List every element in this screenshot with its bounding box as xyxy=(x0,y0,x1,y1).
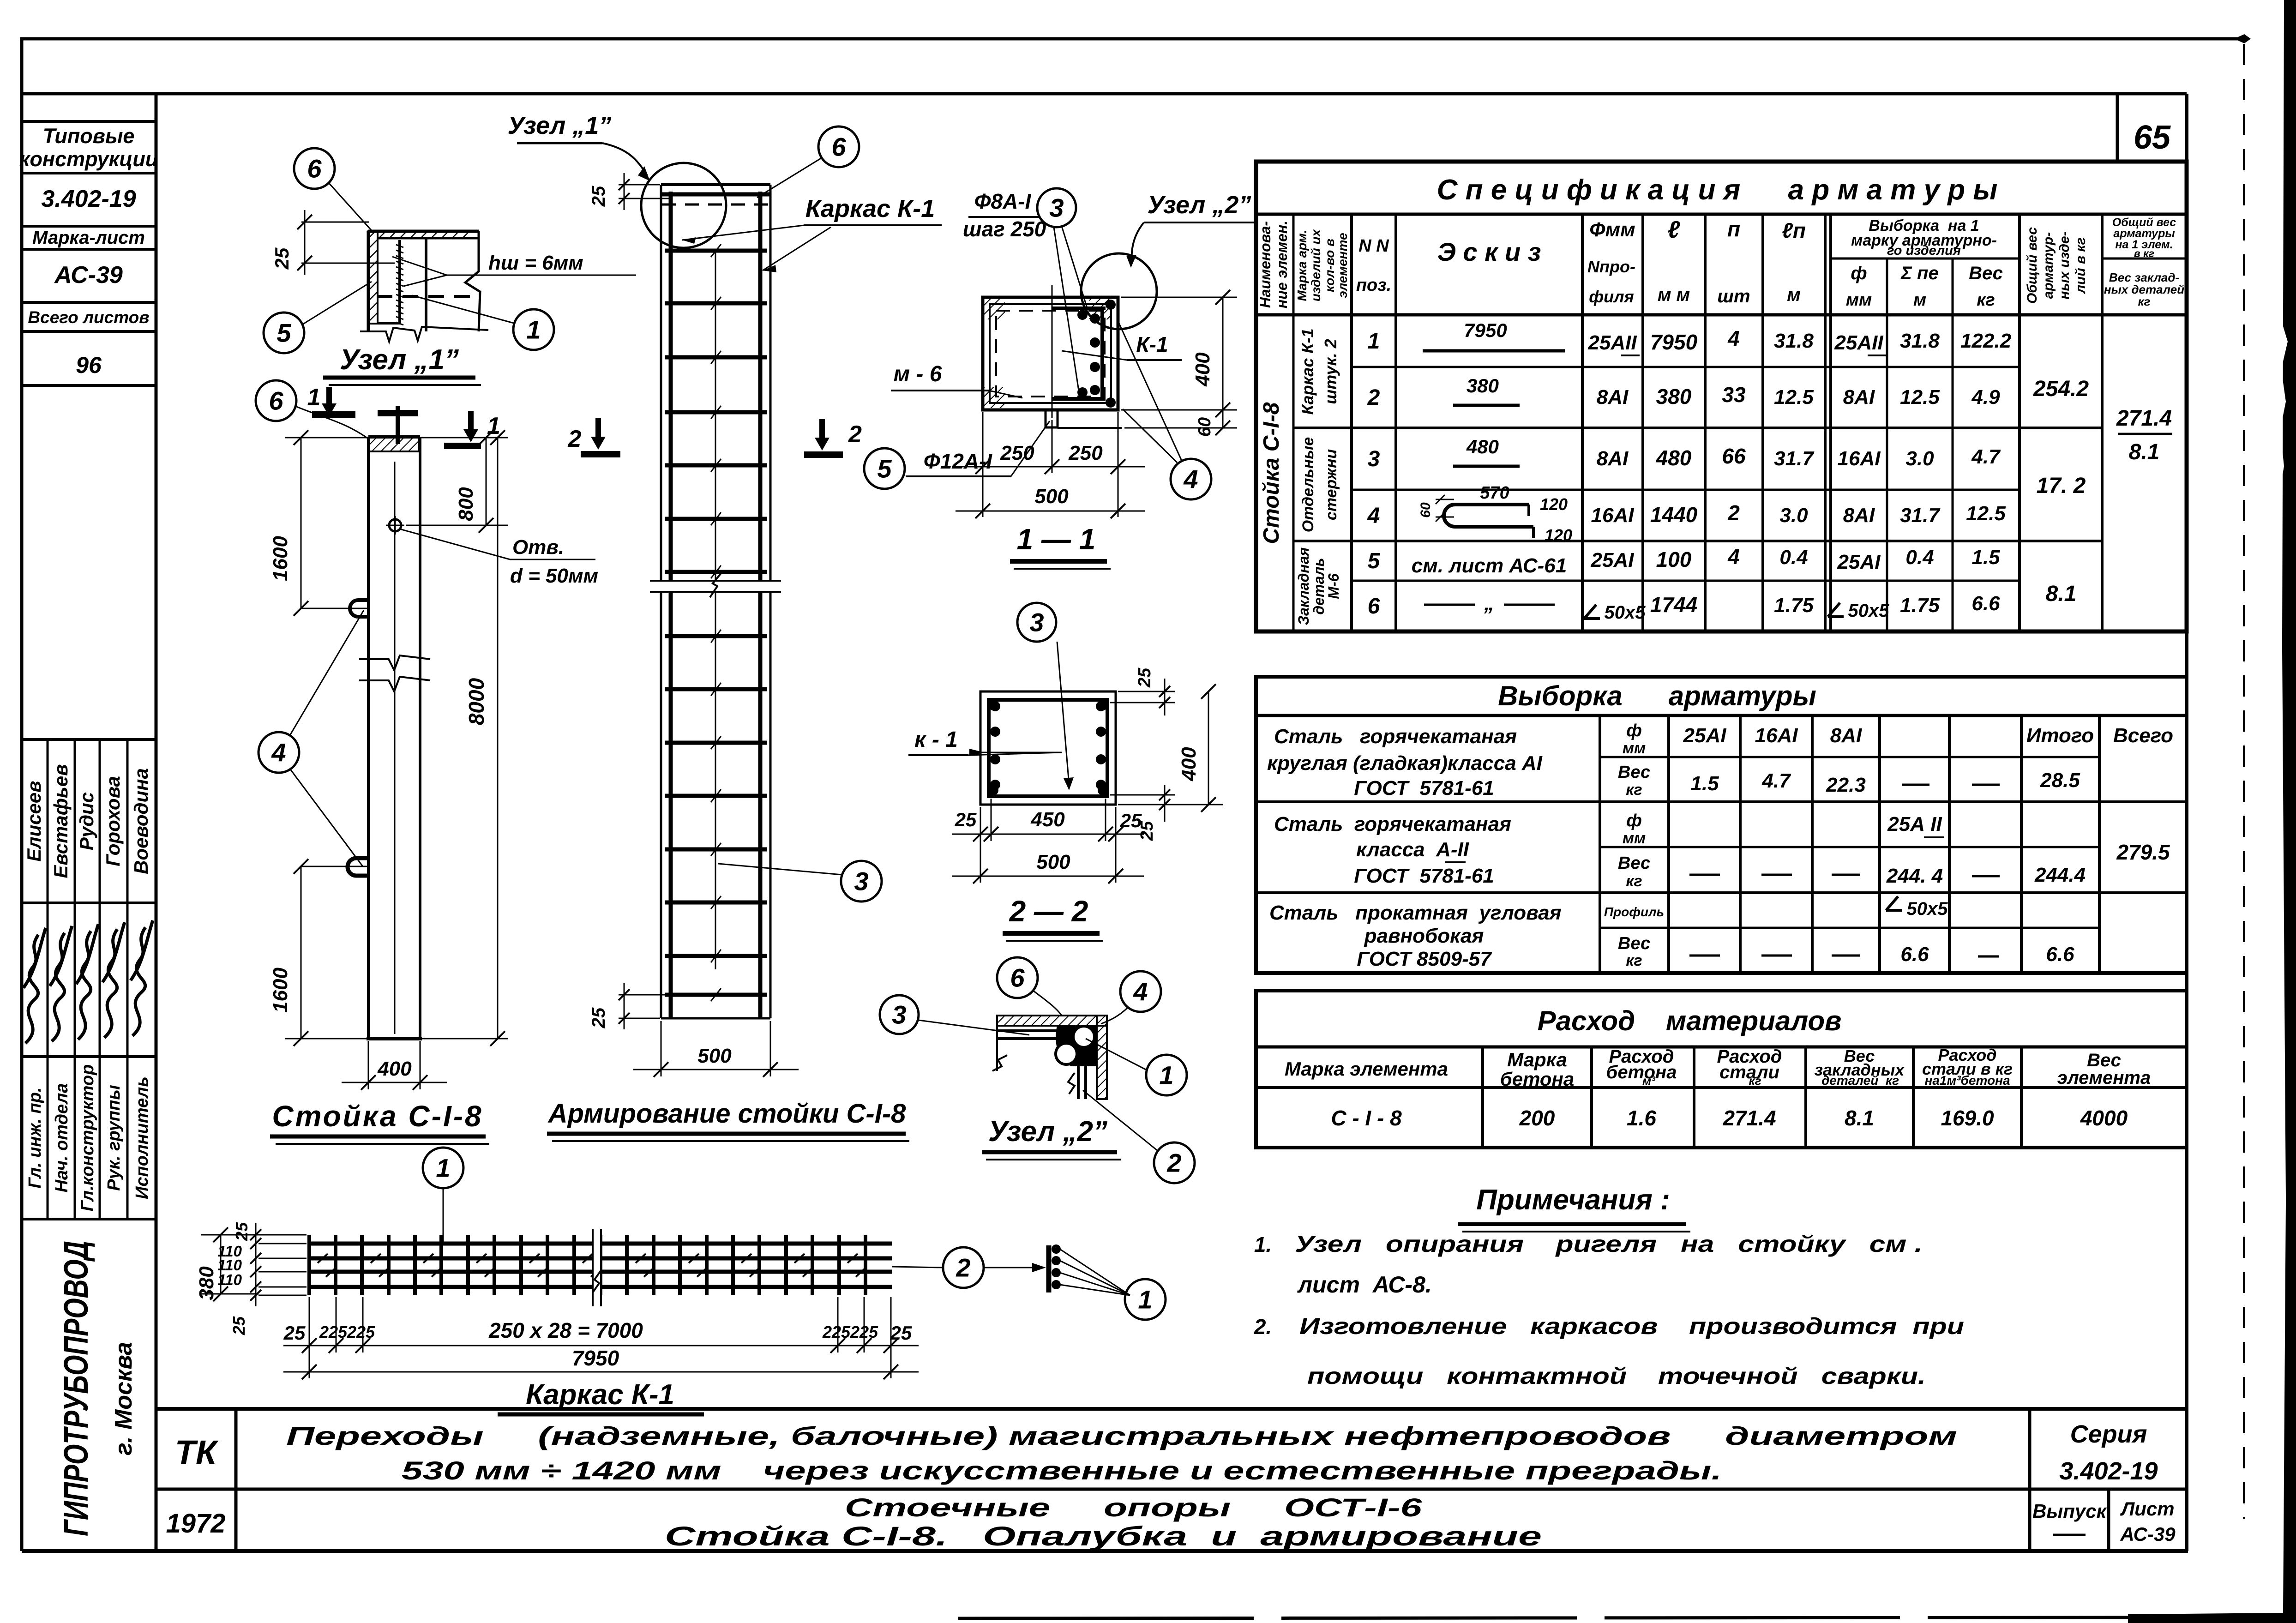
svg-text:8.1: 8.1 xyxy=(1845,1106,1874,1130)
svg-text:см. лист АС-61: см. лист АС-61 xyxy=(1412,554,1567,577)
bubble 4 with leaders to hooks xyxy=(258,732,299,773)
uzel1 weld seam (serrated) xyxy=(396,245,403,325)
svg-text:Узел „2”: Узел „2” xyxy=(1148,191,1251,219)
karkas K-1 cage longitudinal bars xyxy=(308,1242,892,1246)
bubble 5 + f12A-I label xyxy=(864,448,905,489)
svg-text:Горохова: Горохова xyxy=(102,776,124,866)
svg-text:ГОСТ 5781-61: ГОСТ 5781-61 xyxy=(1354,865,1494,887)
ladder longitudinal bars xyxy=(669,192,673,1018)
stojka lifting hook upper xyxy=(350,600,368,617)
spec header mid lines xyxy=(1831,258,2020,260)
signature table verticals xyxy=(47,739,49,1219)
stojka centre line xyxy=(394,462,396,1034)
svg-text:450: 450 xyxy=(1030,808,1065,831)
svg-text:Наименова-: Наименова- xyxy=(1257,221,1274,308)
svg-text:1: 1 xyxy=(436,1154,450,1183)
svg-text:бетона: бетона xyxy=(1606,1062,1677,1082)
svg-text:8000: 8000 xyxy=(464,678,488,725)
bubble 4 with leaders xyxy=(1171,459,1211,499)
svg-text:25: 25 xyxy=(283,1322,306,1344)
dims right of 2-2: 25 top xyxy=(1118,691,1175,692)
svg-text:Марка арм.: Марка арм. xyxy=(1295,229,1309,301)
svg-text:Стоечные опоры ОСТ-I-6: Стоечные опоры ОСТ-I-6 xyxy=(845,1493,1422,1522)
section mark cross at column centre xyxy=(396,406,400,444)
armirovanie ladder outer rect xyxy=(661,183,770,186)
svg-text:Узел „2”: Узел „2” xyxy=(988,1116,1107,1148)
svg-text:шаг 250: шаг 250 xyxy=(963,217,1046,241)
spec header bottom xyxy=(1256,313,2187,317)
ladder break mark xyxy=(658,581,774,592)
svg-text:Nпро-: Nпро- xyxy=(1587,257,1635,276)
svg-text:Сталь горячекатаная: Сталь горячекатаная xyxy=(1274,725,1517,748)
svg-text:Общий вес: Общий вес xyxy=(2025,227,2040,304)
svg-text:ГОСТ 8509-57: ГОСТ 8509-57 xyxy=(1357,948,1492,970)
svg-text:1: 1 xyxy=(526,315,541,344)
svg-text:кг: кг xyxy=(1977,290,1995,310)
vyborka verticals xyxy=(1599,715,1601,973)
dim 500 below 2-2 xyxy=(952,876,1144,877)
cage break mark xyxy=(593,1229,602,1306)
svg-text:120: 120 xyxy=(1545,526,1572,545)
svg-text:К-1: К-1 xyxy=(1136,332,1168,356)
svg-text:Стойка С-I-8: Стойка С-I-8 xyxy=(272,1100,483,1133)
stojka hole otv d=50 xyxy=(389,519,401,531)
svg-text:2: 2 xyxy=(1166,1148,1181,1178)
svg-text:ф: ф xyxy=(1626,721,1642,740)
svg-text:Узел „1”: Узел „1” xyxy=(340,344,459,376)
svg-text:Закладная: Закладная xyxy=(1295,547,1312,625)
svg-text:Выборка арматуры: Выборка арматуры xyxy=(1498,680,1816,711)
svg-text:1440: 1440 xyxy=(1650,503,1698,527)
uzel2 bubble 2 xyxy=(1154,1142,1195,1183)
svg-text:122.2: 122.2 xyxy=(1960,330,2012,352)
svg-text:4: 4 xyxy=(1367,504,1380,528)
svg-text:3: 3 xyxy=(1029,608,1044,637)
svg-text:25: 25 xyxy=(1120,810,1142,831)
svg-text:„: „ xyxy=(1484,592,1494,615)
svg-text:6: 6 xyxy=(1368,594,1380,619)
dims below 2-2: 25 450 25 xyxy=(980,807,981,883)
svg-text:400: 400 xyxy=(1178,747,1200,781)
svg-text:7950: 7950 xyxy=(572,1346,619,1370)
svg-text:Э с к и з: Э с к и з xyxy=(1437,237,1541,266)
svg-text:м м: м м xyxy=(1658,285,1690,305)
dim 8000 right xyxy=(497,438,499,1039)
svg-text:Стойка С-I-8. Опалубка и а: Стойка С-I-8. Опалубка и армирование xyxy=(665,1521,1542,1551)
svg-text:Всего листов: Всего листов xyxy=(28,308,149,327)
svg-text:Гл. инж. пр.: Гл. инж. пр. xyxy=(25,1088,45,1189)
spec row lines xyxy=(1352,366,2020,368)
svg-text:мм: мм xyxy=(1846,290,1872,310)
dim 1600 upper xyxy=(301,438,302,608)
stojka C-I-8 elevation outline xyxy=(368,435,420,438)
svg-text:изделий их: изделий их xyxy=(1309,228,1323,301)
svg-text:33: 33 xyxy=(1722,383,1746,407)
svg-text:271.4: 271.4 xyxy=(1722,1106,1776,1130)
uzel1 bubble 5 xyxy=(264,313,304,353)
svg-text:Переходы (надземные, балоч: Переходы (надземные, балочные) магистрал… xyxy=(286,1421,1957,1450)
dim 7950 xyxy=(283,1371,919,1373)
ladder dashed top hidden line xyxy=(662,204,769,206)
svg-text:в кг: в кг xyxy=(2134,247,2154,259)
section 1-1 K-1 cage right part xyxy=(1100,307,1104,401)
svg-text:225: 225 xyxy=(319,1322,348,1341)
svg-text:6.6: 6.6 xyxy=(1971,592,2000,615)
svg-text:Елисеев: Елисеев xyxy=(23,781,45,861)
svg-text:Изготовление каркасов про: Изготовление каркасов производится при xyxy=(1299,1313,1964,1339)
svg-text:1 — 1: 1 — 1 xyxy=(1017,523,1096,556)
svg-text:16АI: 16АI xyxy=(1591,504,1635,527)
dims 250 250 below 1-1 xyxy=(982,412,984,473)
svg-text:4: 4 xyxy=(1727,545,1740,569)
vyborka group lines xyxy=(1256,800,2187,803)
svg-text:бетона: бетона xyxy=(1500,1068,1575,1090)
svg-text:500: 500 xyxy=(697,1045,732,1067)
fold mark dashed line xyxy=(2243,44,2245,1519)
dim 400 below stojka xyxy=(368,1041,369,1089)
svg-text:25: 25 xyxy=(229,1316,248,1335)
svg-text:4.9: 4.9 xyxy=(1971,386,2000,409)
svg-text:Вес: Вес xyxy=(1969,263,2003,283)
svg-text:г. Москва: г. Москва xyxy=(110,1342,137,1455)
uzel2 bubble 1 xyxy=(1146,1055,1187,1095)
karkas K-1 stirrups xyxy=(307,1235,311,1295)
cage end view bar xyxy=(1046,1245,1052,1292)
svg-text:25АI: 25АI xyxy=(1591,549,1635,571)
svg-text:2: 2 xyxy=(848,421,862,448)
svg-text:Отдельные: Отдельные xyxy=(1299,437,1317,532)
svg-text:равнобокая: равнобокая xyxy=(1364,925,1484,947)
leaders from bubble3 into section xyxy=(1054,227,1080,397)
svg-text:530 мм ÷ 1420 мм через иску: 530 мм ÷ 1420 мм через искусственные и е… xyxy=(402,1456,1722,1485)
svg-text:АС-39: АС-39 xyxy=(2120,1523,2176,1545)
svg-text:16АI: 16АI xyxy=(1755,724,1798,747)
left dims 25/110/110/110/25 xyxy=(255,1223,257,1306)
svg-text:Каркас К-1: Каркас К-1 xyxy=(805,195,935,222)
uzel1 indicator circle on ladder corner xyxy=(641,163,726,248)
svg-text:мм: мм xyxy=(1623,830,1646,847)
svg-text:Вес: Вес xyxy=(1618,934,1650,953)
svg-text:480: 480 xyxy=(1466,436,1499,457)
svg-text:500: 500 xyxy=(1036,851,1070,873)
svg-text:8.1: 8.1 xyxy=(2129,440,2160,464)
svg-text:Марка элемента: Марка элемента xyxy=(1285,1058,1448,1080)
svg-text:400: 400 xyxy=(1191,352,1214,387)
svg-text:Всего: Всего xyxy=(2113,724,2173,747)
svg-text:25: 25 xyxy=(271,247,293,270)
svg-text:Каркас К-1: Каркас К-1 xyxy=(526,1379,674,1411)
svg-text:250 х 28 = 7000: 250 х 28 = 7000 xyxy=(488,1318,643,1342)
svg-text:12.5: 12.5 xyxy=(1966,502,2006,525)
svg-text:3.402-19: 3.402-19 xyxy=(2059,1457,2158,1485)
svg-text:254.2: 254.2 xyxy=(2033,377,2089,401)
svg-text:6: 6 xyxy=(831,132,846,162)
svg-text:2: 2 xyxy=(956,1253,970,1282)
dim 400 right of 2-2 xyxy=(1208,691,1209,805)
svg-text:2: 2 xyxy=(568,426,582,452)
section 1-1 rebar dots xyxy=(1090,313,1100,324)
dim 25 ladder bottom xyxy=(619,994,669,996)
stojka break marks xyxy=(359,655,430,691)
svg-text:6: 6 xyxy=(269,386,283,415)
svg-text:65: 65 xyxy=(2134,119,2171,156)
svg-text:лист АС-8.: лист АС-8. xyxy=(1297,1272,1432,1298)
right margin line xyxy=(2185,94,2188,1551)
scan edge artifacts right strip xyxy=(2128,0,2296,1623)
svg-text:1972: 1972 xyxy=(166,1509,225,1539)
section 2-2 mid line with K-1 arrow xyxy=(980,752,1062,753)
svg-text:250: 250 xyxy=(1068,442,1103,464)
svg-text:66: 66 xyxy=(1722,444,1746,468)
svg-text:элемента: элемента xyxy=(2057,1068,2151,1088)
svg-text:25АI: 25АI xyxy=(1837,551,1881,573)
spec verticals xyxy=(1292,214,1295,631)
svg-text:50х5: 50х5 xyxy=(1848,601,1890,621)
svg-text:31.7: 31.7 xyxy=(1774,447,1815,470)
uzel1 bubble 1 xyxy=(513,309,554,350)
svg-text:1: 1 xyxy=(1138,1285,1152,1314)
svg-text:1600: 1600 xyxy=(269,968,292,1013)
svg-text:244.4: 244.4 xyxy=(2034,864,2086,886)
svg-text:3.0: 3.0 xyxy=(1905,447,1934,470)
uzel 2 indicator circle xyxy=(1081,253,1157,329)
svg-text:100: 100 xyxy=(1656,547,1692,571)
top band divider line xyxy=(22,92,2187,96)
svg-text:1.75: 1.75 xyxy=(1900,594,1940,617)
uzel1 bottom break lines xyxy=(360,327,488,342)
section 1-1 outer square xyxy=(983,297,1118,410)
svg-text:3: 3 xyxy=(1049,193,1064,222)
svg-text:25АI: 25АI xyxy=(1683,724,1727,747)
svg-text:1: 1 xyxy=(307,384,321,411)
rashod verticals xyxy=(1481,1047,1484,1148)
svg-text:Узел „1”: Узел „1” xyxy=(508,112,612,139)
svg-text:филя: филя xyxy=(1589,287,1634,306)
svg-text:ℓ: ℓ xyxy=(1668,216,1681,243)
bubble 2 with leader to end view xyxy=(943,1247,984,1288)
svg-text:2: 2 xyxy=(1727,501,1740,525)
svg-text:570: 570 xyxy=(1480,483,1509,503)
svg-text:225: 225 xyxy=(822,1322,851,1341)
svg-text:м³: м³ xyxy=(1642,1074,1656,1088)
left dims of cage: 380 xyxy=(220,1235,222,1294)
svg-text:кг: кг xyxy=(1626,872,1642,890)
svg-text:круглая (гладкая)класса АI: круглая (гладкая)класса АI xyxy=(1267,752,1543,775)
svg-text:мм: мм xyxy=(1623,739,1646,757)
svg-text:Итого: Итого xyxy=(2026,724,2094,747)
svg-text:60: 60 xyxy=(1418,502,1433,518)
svg-text:Гл.конструктор: Гл.конструктор xyxy=(78,1064,97,1212)
svg-text:50х5: 50х5 xyxy=(1605,602,1646,623)
svg-text:кг: кг xyxy=(1749,1074,1761,1088)
svg-text:N N: N N xyxy=(1358,236,1389,256)
svg-text:к - 1: к - 1 xyxy=(914,727,958,752)
svg-text:hш = 6мм: hш = 6мм xyxy=(488,252,583,274)
uzel1 outer right edge with break xyxy=(465,231,480,331)
svg-text:25: 25 xyxy=(589,186,609,207)
svg-text:380: 380 xyxy=(1467,375,1499,397)
weld tick marks on cage xyxy=(318,1254,328,1263)
svg-text:Фмм: Фмм xyxy=(1589,218,1635,241)
dim 800 right xyxy=(421,437,508,439)
svg-text:Стойка С-I-8: Стойка С-I-8 xyxy=(1259,402,1284,544)
svg-text:Рудис: Рудис xyxy=(76,792,97,850)
svg-text:1744: 1744 xyxy=(1650,593,1697,617)
svg-text:25АII: 25АII xyxy=(1587,331,1637,354)
eskiz r6 xyxy=(1424,604,1475,606)
svg-text:25: 25 xyxy=(1135,667,1154,688)
svg-text:м - 6: м - 6 xyxy=(894,362,942,386)
ladder top chord xyxy=(662,192,769,197)
section 1-1 inner offset lines xyxy=(990,304,1111,403)
svg-text:4.7: 4.7 xyxy=(1761,769,1791,792)
svg-text:ных изде-: ных изде- xyxy=(2057,231,2072,299)
svg-text:ГОСТ 5781-61: ГОСТ 5781-61 xyxy=(1354,777,1494,799)
svg-text:96: 96 xyxy=(76,352,102,378)
uzel1 inner plate verticals xyxy=(398,240,401,323)
svg-text:12.5: 12.5 xyxy=(1900,386,1940,409)
svg-text:го изделия: го изделия xyxy=(1887,243,1961,258)
svg-text:8АI: 8АI xyxy=(1830,724,1862,747)
svg-text:400: 400 xyxy=(377,1058,412,1080)
svg-text:5: 5 xyxy=(877,454,892,483)
svg-text:Вес: Вес xyxy=(1618,854,1650,873)
svg-text:шт: шт xyxy=(1717,286,1750,307)
signatures (squiggles) xyxy=(24,928,46,1043)
svg-text:279.5: 279.5 xyxy=(2116,840,2170,864)
svg-text:Сталь прокатная угловая: Сталь прокатная угловая xyxy=(1269,902,1562,924)
specification table outer xyxy=(1256,162,2187,631)
svg-text:4: 4 xyxy=(1133,977,1148,1006)
svg-text:м: м xyxy=(1787,285,1801,305)
svg-text:28.5: 28.5 xyxy=(2040,769,2080,792)
svg-text:кол-во в: кол-во в xyxy=(1322,239,1337,292)
bubble 6 at stojka top xyxy=(256,380,296,421)
svg-text:Сталь горячекатаная: Сталь горячекатаная xyxy=(1274,813,1511,836)
svg-text:Отв.: Отв. xyxy=(512,536,564,559)
svg-text:деталей кг: деталей кг xyxy=(1821,1073,1899,1088)
svg-text:5: 5 xyxy=(1368,549,1381,573)
svg-text:поз.: поз. xyxy=(1356,276,1391,295)
svg-text:6.6: 6.6 xyxy=(1900,943,1929,966)
svg-text:500: 500 xyxy=(1034,485,1069,508)
section 1-1 dashed plate outline xyxy=(996,311,1105,397)
svg-text:элементе: элементе xyxy=(1335,233,1350,298)
svg-text:Узел опирания ригеля на: Узел опирания ригеля на стойку см . xyxy=(1295,1231,1923,1257)
svg-text:2 — 2: 2 — 2 xyxy=(1009,895,1088,928)
svg-text:стержни: стержни xyxy=(1322,449,1340,520)
svg-text:Вес: Вес xyxy=(1618,763,1650,782)
svg-text:31.8: 31.8 xyxy=(1900,330,1940,352)
svg-text:ние элемен.: ние элемен. xyxy=(1274,221,1290,308)
svg-text:d = 50мм: d = 50мм xyxy=(510,565,598,587)
ladder centre bar (thin) xyxy=(715,249,716,969)
svg-text:380: 380 xyxy=(195,1266,218,1300)
svg-text:0.4: 0.4 xyxy=(1779,546,1808,569)
uzel2 bubble 4 xyxy=(1120,971,1161,1012)
vyborka sub lines xyxy=(1600,756,2099,758)
svg-text:7950: 7950 xyxy=(1464,319,1507,341)
svg-text:3: 3 xyxy=(1368,447,1380,471)
svg-text:25: 25 xyxy=(890,1322,912,1344)
uzel2 top hatched strip xyxy=(997,1016,1107,1026)
svg-text:штук. 2: штук. 2 xyxy=(1321,339,1340,404)
svg-text:на1м³бетона: на1м³бетона xyxy=(1924,1073,2010,1088)
svg-text:АС-39: АС-39 xyxy=(54,262,123,289)
svg-text:250: 250 xyxy=(1000,442,1034,464)
uzel2 horizontal bars xyxy=(997,1029,1076,1032)
svg-text:Лист: Лист xyxy=(2120,1498,2174,1520)
uzel1 concrete outline left xyxy=(367,231,370,331)
uzel2 right hatched strip xyxy=(1097,1016,1107,1099)
otv d=50mm label with leader xyxy=(400,529,510,559)
left column divider xyxy=(155,94,158,1551)
svg-text:6: 6 xyxy=(307,154,322,183)
svg-text:110: 110 xyxy=(217,1271,242,1288)
svg-text:ф: ф xyxy=(1851,263,1867,283)
svg-text:1.75: 1.75 xyxy=(1774,594,1814,617)
svg-text:Профиль: Профиль xyxy=(1604,905,1664,919)
svg-text:169.0: 169.0 xyxy=(1941,1106,1994,1130)
bottom title block lines xyxy=(156,1407,2187,1411)
svg-text:1.5: 1.5 xyxy=(1690,772,1719,795)
svg-text:помощи контактной точечно: помощи контактной точечной сварки. xyxy=(1307,1363,1926,1389)
svg-text:С п е ц и ф и к а ц и я а: С п е ц и ф и к а ц и я а р м а т у р ы xyxy=(1437,174,1998,206)
svg-text:арматур-: арматур- xyxy=(2041,232,2056,299)
uzel1 dim 25 xyxy=(301,222,369,223)
uzel2 bubble 3 xyxy=(880,995,919,1034)
svg-text:Нач. отдела: Нач. отдела xyxy=(52,1083,72,1193)
svg-text:ГИПРОТРУБОПРОВОД: ГИПРОТРУБОПРОВОД xyxy=(57,1241,95,1536)
svg-text:12.5: 12.5 xyxy=(1774,386,1814,409)
svg-text:1: 1 xyxy=(1368,329,1380,354)
svg-text:3.402-19: 3.402-19 xyxy=(41,186,136,212)
svg-text:50х5: 50х5 xyxy=(1907,899,1948,919)
svg-text:1: 1 xyxy=(1159,1061,1173,1090)
dim 500 below 1-1 xyxy=(982,473,984,517)
svg-text:200: 200 xyxy=(1519,1106,1555,1130)
svg-text:31.7: 31.7 xyxy=(1900,504,1941,527)
bubble 3 mid right xyxy=(841,861,882,902)
svg-text:ТК: ТК xyxy=(175,1433,219,1472)
svg-text:2: 2 xyxy=(1367,385,1380,410)
svg-text:Воеводина: Воеводина xyxy=(130,768,152,874)
svg-text:конструкции: конструкции xyxy=(19,147,158,171)
svg-text:кг: кг xyxy=(1626,952,1642,969)
svg-text:Армирование стойки С-I-8: Армирование стойки С-I-8 xyxy=(547,1099,907,1129)
svg-text:Исполнитель: Исполнитель xyxy=(132,1076,152,1199)
ladder stirrup rungs xyxy=(665,249,767,253)
sheet outer frame xyxy=(20,38,24,1551)
svg-text:25: 25 xyxy=(232,1222,251,1241)
dim 400 right of 1-1 xyxy=(1121,297,1237,298)
svg-text:п: п xyxy=(1727,217,1740,241)
section 1-1 corner angle hatches xyxy=(984,298,1005,319)
svg-text:класса А-II: класса А-II xyxy=(1356,838,1469,861)
svg-text:1.: 1. xyxy=(1254,1232,1272,1256)
dim 60 xyxy=(1121,409,1237,411)
svg-text:Ф8А-I: Ф8А-I xyxy=(974,189,1032,213)
svg-text:Каркас К-1: Каркас К-1 xyxy=(1298,328,1317,415)
svg-text:7950: 7950 xyxy=(1650,330,1698,354)
svg-text:ℓп: ℓп xyxy=(1782,218,1806,242)
svg-text:8АI: 8АI xyxy=(1843,386,1875,409)
svg-text:244. 4: 244. 4 xyxy=(1886,865,1943,887)
uzel1 angle plate hatched strip (left vertical) xyxy=(368,231,378,324)
svg-text:кг: кг xyxy=(2138,295,2150,308)
vyborka armatury table outer xyxy=(1256,677,2187,973)
end view dots + fan to bubble 1 xyxy=(1052,1244,1061,1254)
